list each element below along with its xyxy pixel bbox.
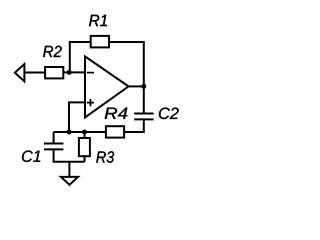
wire R1 to output column <box>109 42 144 86</box>
wire C1 top lead <box>53 132 55 143</box>
label R4 <box>105 108 128 119</box>
label R3 <box>96 151 114 162</box>
resistor R1 <box>91 36 109 48</box>
label R1 <box>89 15 107 26</box>
wire R3 bottom lead <box>84 156 86 162</box>
wire R2 to op-amp inverting input <box>63 71 85 73</box>
resistor R4 <box>106 126 124 137</box>
ground <box>61 177 78 185</box>
label R2 <box>43 46 62 57</box>
resistor R3 <box>79 138 90 156</box>
resistor R2 <box>45 67 63 78</box>
wire ground stub <box>68 162 70 177</box>
wire C2 bottom to R4 <box>124 120 144 132</box>
op-amp plus pin label <box>87 99 94 106</box>
wire output node down to C2 <box>143 86 145 112</box>
capacitor C1 <box>44 144 63 150</box>
wire R3 top lead <box>84 132 86 138</box>
label C2 <box>159 108 179 119</box>
wire port to R2 <box>24 72 45 74</box>
op-amp U1 <box>85 56 129 117</box>
wire op-amp output <box>129 85 144 87</box>
wire C1 bottom to R3 bottom <box>54 150 85 161</box>
label C1 <box>22 151 40 162</box>
node R3 top junction <box>82 130 87 135</box>
wire node up to op-amp plus input <box>69 102 85 132</box>
op-amp minus pin label <box>87 72 94 74</box>
capacitor C2 <box>134 114 153 120</box>
node inverting input junction <box>67 70 72 75</box>
input port terminal <box>15 64 25 81</box>
node output junction <box>141 84 146 89</box>
wire R4 to node row <box>54 131 106 133</box>
node plus-input junction <box>67 130 72 135</box>
wire inverting node up to R1 <box>70 42 91 72</box>
